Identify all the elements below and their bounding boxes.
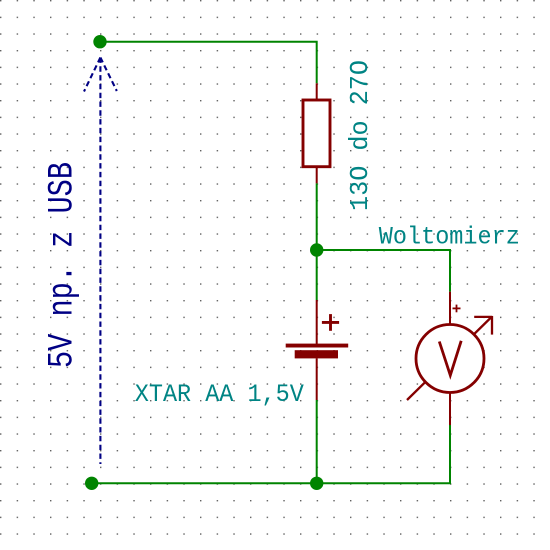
wire bottom rail and voltmeter bottom [92,425,450,483]
svg-text:Woltomierz: Woltomierz [379,223,520,252]
svg-text:XTAR AA 1,5V: XTAR AA 1,5V [135,380,304,409]
junction at resistor bottom / voltmeter tap [310,243,323,256]
resistor R1 body and pins [303,83,330,183]
label 130 do 270 resistor value [345,60,375,211]
label Woltomierz [379,223,520,252]
svg-text:5V np. z USB: 5V np. z USB [42,162,83,368]
label XTAR AA 1,5V battery value [135,380,304,409]
dashed arrow 5V supply annotation [84,58,117,465]
wire battery to bottom junction [316,400,318,483]
wire top from node to resistor [100,42,317,84]
label 5V np. z USB [42,162,83,368]
voltmeter P1 [407,292,492,425]
node bottom-left wire end [85,477,98,490]
wire resistor to battery [316,183,318,300]
junction bottom rail at battery branch [310,477,323,490]
battery BT1 [286,300,349,400]
node top-left wire end [93,35,106,48]
svg-text:13O do 27O: 13O do 27O [345,60,375,211]
wire junction to voltmeter top [317,250,450,292]
